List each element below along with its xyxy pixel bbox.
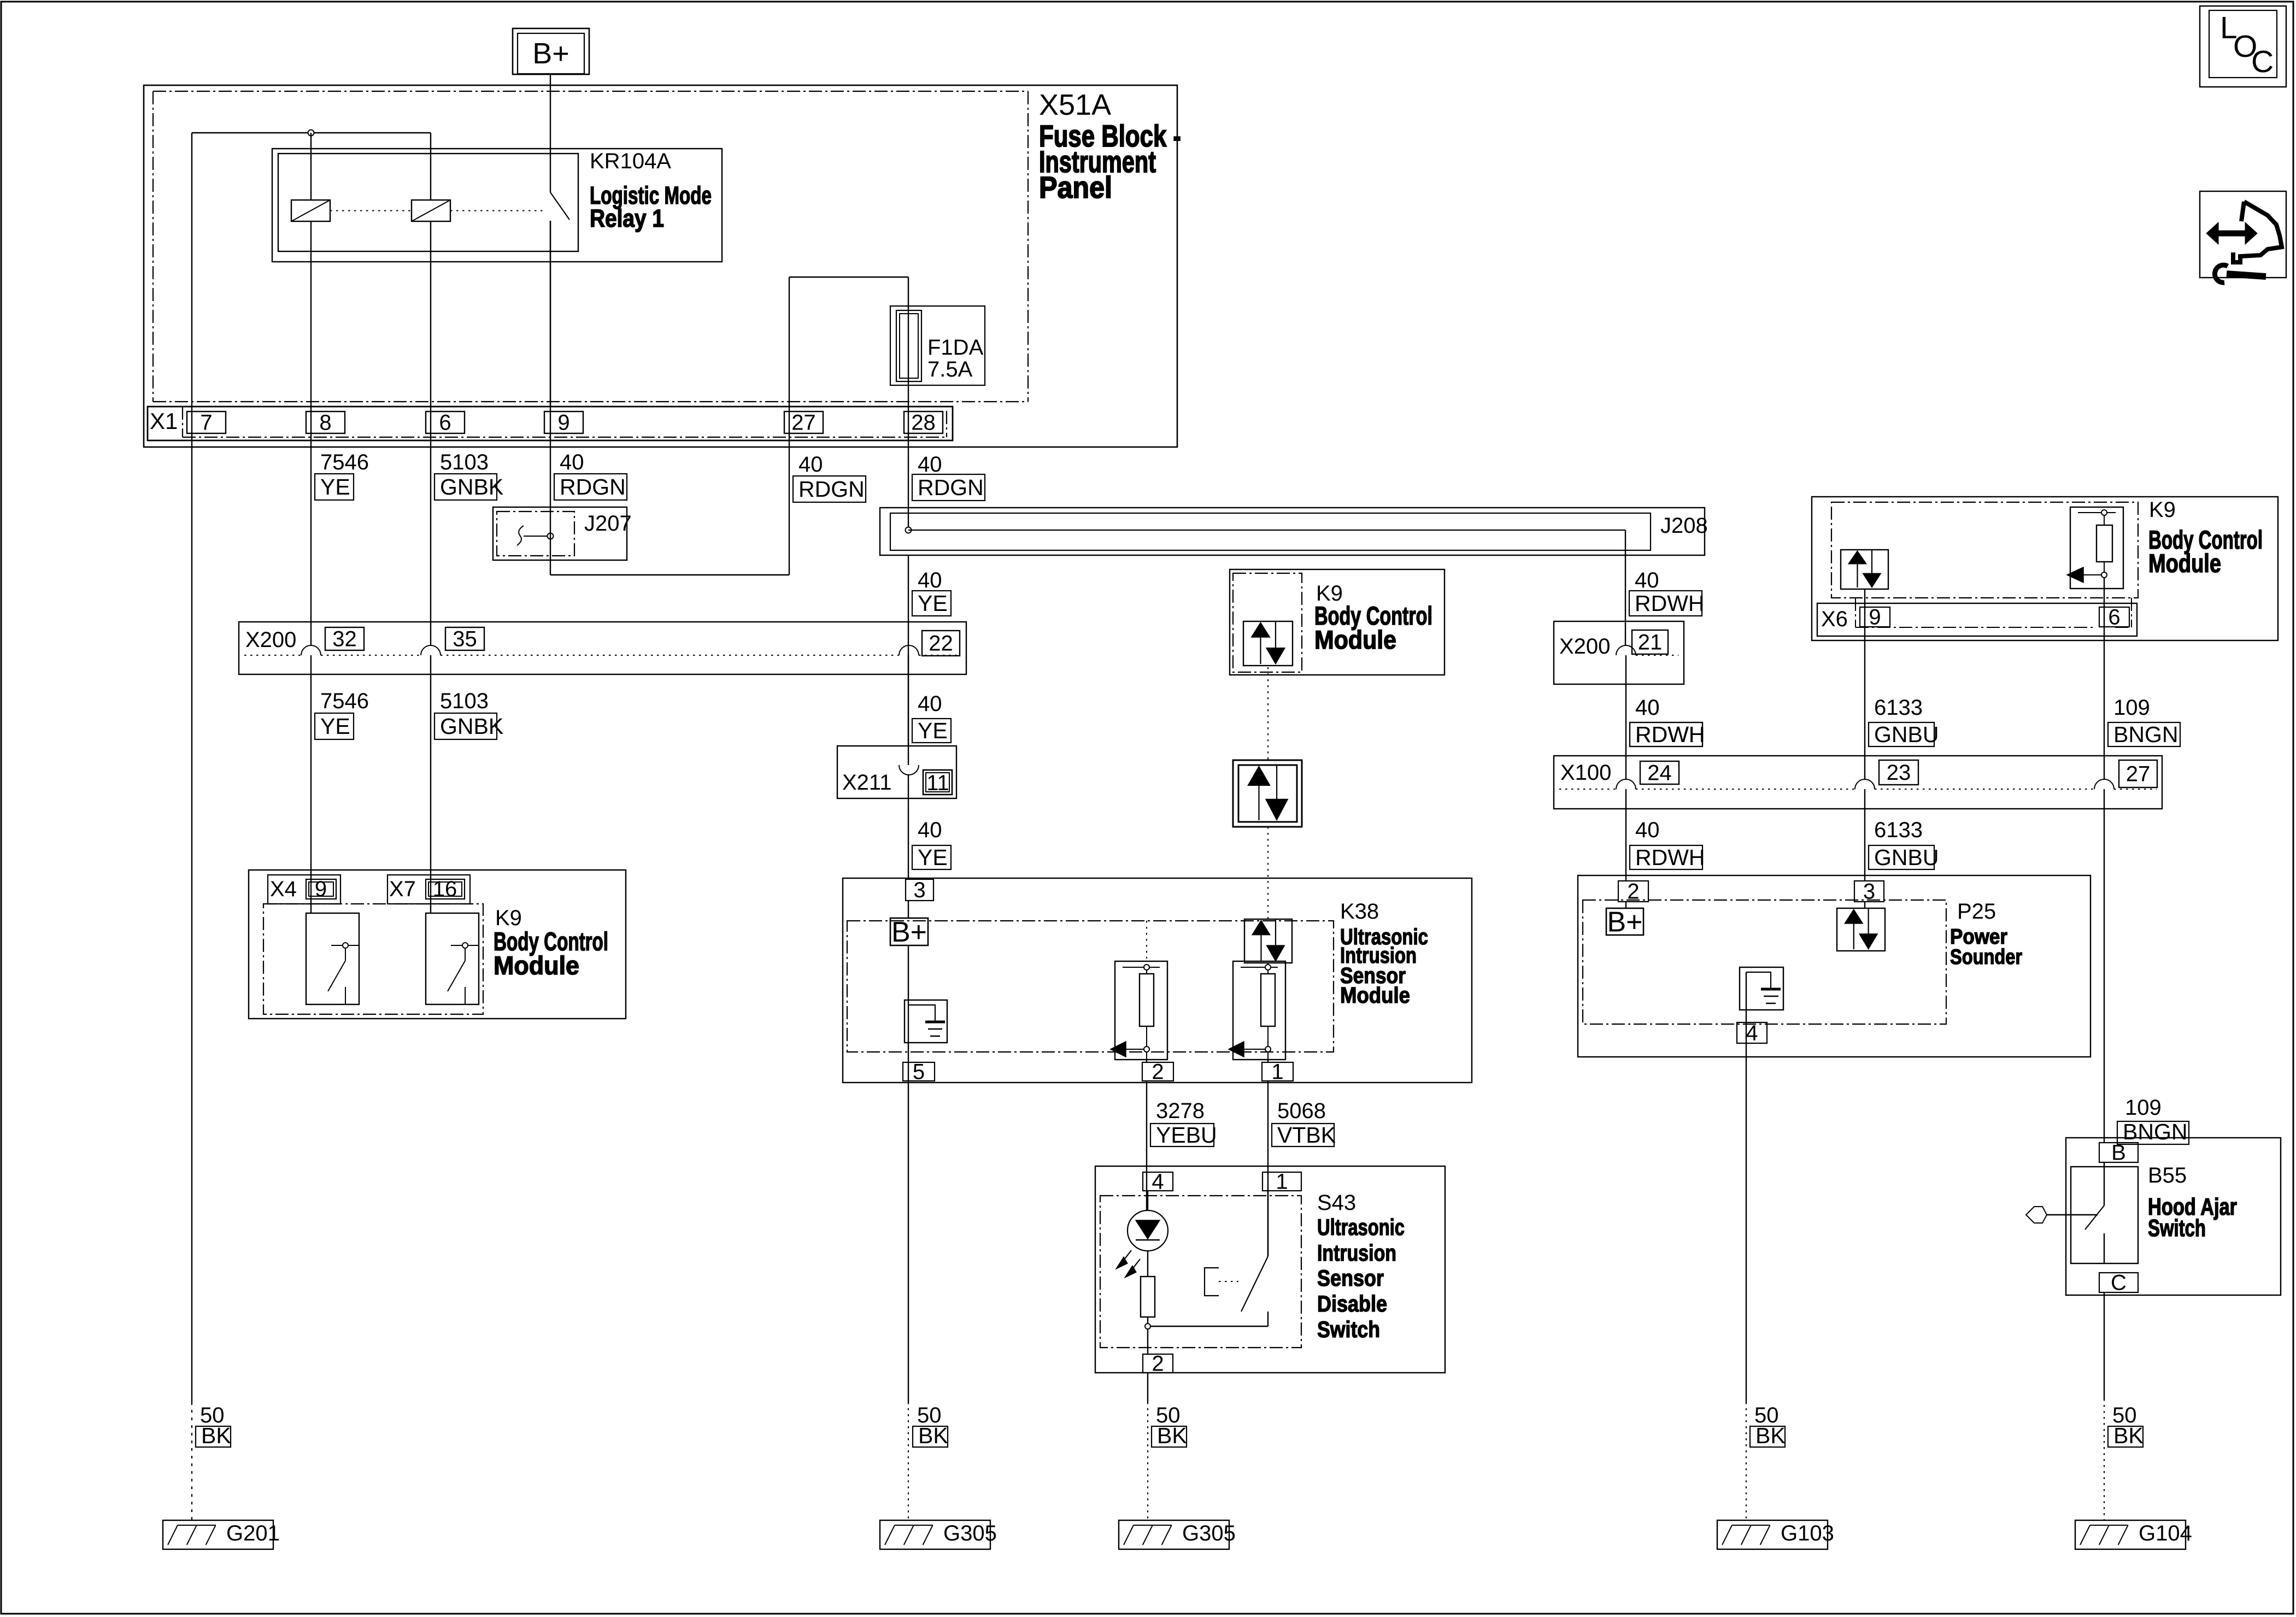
svg-text:J208: J208 [1660,514,1708,538]
svg-text:YE: YE [320,474,350,499]
svg-text:2: 2 [1152,1060,1164,1084]
svg-text:16: 16 [433,877,457,901]
svg-text:28: 28 [911,411,936,435]
svg-text:B+: B+ [532,37,569,70]
svg-text:9: 9 [1869,605,1881,630]
svg-text:4: 4 [1152,1170,1164,1194]
svg-text:GNBU: GNBU [1874,845,1939,870]
svg-text:4: 4 [1746,1021,1758,1045]
svg-text:B55: B55 [2148,1163,2187,1187]
svg-text:Disable: Disable [1317,1291,1387,1316]
svg-text:X6: X6 [1821,607,1848,631]
svg-text:Module: Module [1340,983,1410,1008]
svg-text:40: 40 [918,568,942,592]
svg-text:G104: G104 [2139,1521,2192,1545]
svg-text:5103: 5103 [440,450,489,474]
svg-text:5: 5 [913,1060,925,1084]
svg-text:Switch: Switch [1317,1316,1380,1342]
svg-text:P25: P25 [1957,899,1996,924]
svg-text:Panel: Panel [1039,170,1112,204]
svg-text:40: 40 [918,452,942,477]
svg-text:X200: X200 [1559,634,1610,658]
svg-text:RDWH: RDWH [1635,722,1705,747]
svg-text:X4: X4 [270,877,297,901]
svg-text:Sounder: Sounder [1950,945,2022,969]
svg-text:5068: 5068 [1277,1099,1326,1123]
svg-text:27: 27 [791,411,816,435]
svg-text:B+: B+ [1607,906,1642,938]
svg-text:109: 109 [2125,1096,2162,1120]
svg-text:5103: 5103 [440,689,489,713]
svg-text:6: 6 [2108,605,2120,630]
svg-text:Ultrasonic: Ultrasonic [1317,1214,1405,1240]
svg-text:9: 9 [315,877,327,901]
svg-text:BK: BK [201,1423,231,1448]
svg-text:YE: YE [918,845,948,870]
svg-text:40: 40 [1635,818,1660,842]
svg-text:X100: X100 [1560,761,1611,785]
svg-text:K38: K38 [1340,899,1379,924]
svg-text:GNBK: GNBK [440,714,503,739]
svg-text:3: 3 [913,878,925,902]
svg-text:2: 2 [1152,1352,1164,1376]
svg-text:G305: G305 [1182,1521,1236,1545]
svg-text:Sensor: Sensor [1317,1265,1384,1291]
svg-text:40: 40 [918,692,942,716]
svg-text:G305: G305 [943,1521,997,1545]
svg-text:X7: X7 [389,877,416,901]
svg-text:Intrusion: Intrusion [1317,1240,1396,1266]
svg-text:Relay 1: Relay 1 [590,204,664,232]
svg-text:Switch: Switch [2148,1215,2206,1242]
svg-text:X211: X211 [842,771,891,795]
svg-text:GNBU: GNBU [1874,722,1939,747]
svg-text:RDGN: RDGN [798,477,865,502]
svg-text:35: 35 [453,627,477,651]
svg-text:11: 11 [926,771,949,795]
svg-text:BK: BK [2113,1423,2144,1448]
svg-text:RDWH: RDWH [1635,591,1705,616]
svg-text:Module: Module [1314,625,1396,654]
svg-text:7546: 7546 [320,689,369,713]
svg-text:23: 23 [1887,761,1911,785]
svg-text:7.5A: 7.5A [927,357,973,381]
svg-text:BNGN: BNGN [2123,1119,2187,1144]
svg-text:1: 1 [1271,1060,1283,1084]
svg-text:27: 27 [2126,762,2151,786]
svg-text:BK: BK [1755,1423,1786,1448]
svg-text:YE: YE [320,714,350,739]
svg-text:RDWH: RDWH [1635,845,1705,870]
svg-text:Module: Module [494,951,579,980]
svg-text:40: 40 [560,450,584,474]
svg-text:24: 24 [1647,761,1672,785]
svg-text:40: 40 [1635,568,1659,592]
svg-text:40: 40 [918,818,942,842]
svg-text:1: 1 [1276,1170,1288,1194]
svg-text:YE: YE [918,718,948,743]
svg-text:RDGN: RDGN [918,475,984,500]
svg-text:KR104A: KR104A [590,149,671,173]
svg-text:YE: YE [918,591,948,616]
svg-text:22: 22 [929,632,953,656]
svg-text:8: 8 [319,411,331,435]
svg-text:K9: K9 [2149,498,2176,522]
svg-text:7: 7 [200,411,212,435]
svg-text:YEBU: YEBU [1156,1122,1217,1148]
svg-text:32: 32 [332,627,357,651]
svg-text:6133: 6133 [1874,696,1923,720]
svg-text:BK: BK [918,1423,948,1448]
svg-text:40: 40 [1635,696,1660,720]
svg-text:21: 21 [1638,631,1663,655]
svg-text:X200: X200 [245,628,296,652]
svg-text:6: 6 [439,411,451,435]
svg-text:X1: X1 [150,408,178,434]
svg-text:B+: B+ [891,916,927,948]
svg-text:3278: 3278 [1156,1099,1205,1123]
svg-text:X51A: X51A [1039,89,1111,121]
svg-text:40: 40 [798,452,823,477]
svg-text:Module: Module [2148,549,2221,578]
svg-text:RDGN: RDGN [560,474,626,499]
svg-text:G201: G201 [226,1521,280,1545]
svg-text:109: 109 [2113,696,2150,720]
svg-text:F1DA: F1DA [927,336,984,360]
svg-text:G103: G103 [1781,1521,1834,1545]
svg-text:GNBK: GNBK [440,474,503,499]
svg-text:J207: J207 [584,511,632,536]
svg-text:C: C [2111,1271,2127,1295]
svg-text:C: C [2251,44,2274,79]
svg-text:BNGN: BNGN [2113,722,2178,747]
svg-text:6133: 6133 [1874,818,1923,842]
svg-text:7546: 7546 [320,450,369,474]
svg-text:BK: BK [1157,1423,1187,1448]
svg-text:VTBK: VTBK [1277,1122,1336,1148]
svg-text:S43: S43 [1317,1191,1356,1215]
svg-text:9: 9 [557,411,569,435]
